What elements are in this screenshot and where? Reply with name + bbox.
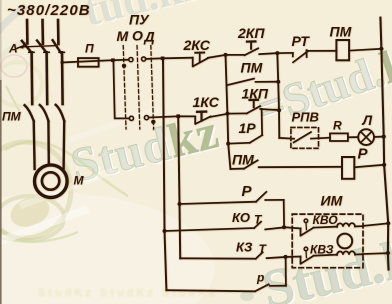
node rail-Pcoil <box>382 163 386 167</box>
svg-text:М: М <box>117 28 129 44</box>
row2 button contacts <box>129 116 133 120</box>
svg-text:2КС: 2КС <box>183 37 211 53</box>
row1 button contacts <box>115 59 129 61</box>
svg-text:ПМ: ПМ <box>330 24 352 40</box>
svg-text:М: М <box>74 174 85 188</box>
contact PM (P coil row) <box>230 168 244 170</box>
node row2 right <box>176 114 180 118</box>
wire VB2 to RPV <box>279 137 294 140</box>
svg-text:Р: Р <box>358 146 369 163</box>
left bus V1 <box>163 58 166 290</box>
IM actuator dashed box <box>292 214 363 268</box>
IM motor circle <box>337 234 352 249</box>
button linkage dashed lines <box>123 46 126 130</box>
contact KZ <box>180 257 256 259</box>
svg-text:ИМ: ИМ <box>321 193 343 209</box>
button D movable contact dot <box>151 120 155 124</box>
wire 2KS to node <box>208 55 226 58</box>
node V2-P <box>178 202 182 206</box>
node: fuse wire junction <box>111 58 115 62</box>
contact 1KP <box>227 112 246 114</box>
svg-text:~380/220В: ~380/220В <box>7 2 91 19</box>
svg-text:КВО: КВО <box>313 213 339 227</box>
node VB2-PMaux <box>276 80 280 84</box>
fuse P <box>78 58 99 67</box>
svg-text:ПУ: ПУ <box>129 12 150 28</box>
node rail-lamp <box>382 135 386 139</box>
contact 2KS <box>192 58 194 66</box>
contact 2KP <box>226 54 245 56</box>
button M movable contact dot <box>122 64 126 68</box>
resistor R <box>330 133 348 141</box>
wire into IM box <box>284 227 301 228</box>
svg-text:О: О <box>132 28 143 44</box>
node KO right <box>282 225 286 229</box>
motor M <box>35 165 68 198</box>
svg-text:КЗ: КЗ <box>236 240 253 255</box>
disconnect switch A blades <box>22 41 32 53</box>
contact P (relay P) <box>180 202 257 204</box>
right rail <box>380 18 388 270</box>
contactor PM main contacts <box>25 105 34 121</box>
lower phase lines <box>30 52 33 104</box>
node KZ right <box>284 255 288 259</box>
winding (close) <box>337 251 355 255</box>
limit switch KVO <box>300 228 302 235</box>
svg-text:ПМ: ПМ <box>241 60 263 76</box>
phase line L1 <box>26 20 29 44</box>
svg-text:П: П <box>85 42 94 56</box>
hang wire 1R right <box>261 109 264 135</box>
contact 1R <box>228 142 250 145</box>
contact RT thermal <box>277 52 293 54</box>
limit switch KVZ <box>286 256 301 258</box>
svg-text:РПВ: РПВ <box>292 110 319 125</box>
drop wire to row2 <box>113 60 129 118</box>
contact PM aux parallel <box>228 79 254 85</box>
svg-text:ПМ: ПМ <box>232 152 254 168</box>
RPV time relay contact box <box>291 127 319 148</box>
drop wire KZ to r <box>285 257 287 286</box>
node VB2-1KP <box>277 108 281 112</box>
coil PM <box>336 40 349 60</box>
svg-text:р: р <box>256 271 264 285</box>
svg-text:ПМ: ПМ <box>2 110 22 124</box>
switch link bar <box>25 46 57 47</box>
node rail-PM <box>379 47 383 51</box>
node row1 right <box>161 57 165 61</box>
svg-text:StudKz StudKz StudKz: StudKz StudKz StudKz <box>38 287 218 299</box>
svg-text:КО: КО <box>232 210 250 225</box>
motor leads <box>33 121 36 169</box>
node VB1-1KP <box>225 112 229 116</box>
branch bus VB1 <box>226 55 231 169</box>
branch bus VB2 <box>277 53 279 138</box>
node rail-KVO <box>386 221 390 225</box>
wire to 2KS <box>163 57 193 60</box>
left bus V2 <box>178 116 180 258</box>
phase line L2 <box>41 20 44 44</box>
svg-text:R: R <box>333 119 342 133</box>
node A1 <box>224 53 228 57</box>
svg-text:РТ: РТ <box>292 33 311 49</box>
svg-text:2КП: 2КП <box>237 25 265 41</box>
svg-text:1КС: 1КС <box>193 94 220 110</box>
lower line terminal ticks <box>29 51 65 53</box>
contact 1KS <box>178 115 195 117</box>
contact KO <box>165 228 255 231</box>
svg-text:Р: Р <box>242 183 253 200</box>
svg-text:1КП: 1КП <box>242 86 269 102</box>
winding (open) <box>337 223 355 227</box>
node V1-KO <box>163 229 167 233</box>
phase line L3 <box>57 20 60 44</box>
node A2 <box>275 51 279 55</box>
svg-text:1Р: 1Р <box>239 120 257 136</box>
node fuse tap <box>60 61 64 65</box>
coil P <box>342 157 354 179</box>
node VB1-1R <box>226 142 230 146</box>
logo swirl <box>0 40 128 242</box>
lamp L <box>358 129 374 145</box>
wire to fuse <box>63 60 113 62</box>
contact r <box>166 290 255 291</box>
svg-text:Д: Д <box>144 29 155 45</box>
node rail-KVZ <box>386 251 390 255</box>
svg-text:Л: Л <box>362 112 373 128</box>
